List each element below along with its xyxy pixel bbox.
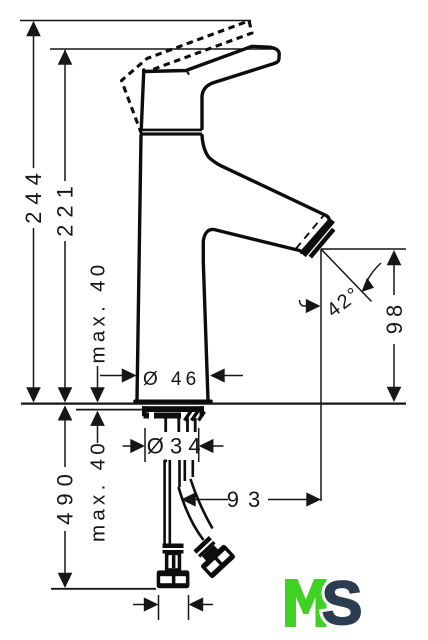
svg-text:Ø 46: Ø 46	[143, 369, 200, 390]
svg-text:93: 93	[227, 487, 269, 512]
svg-text:max. 40: max. 40	[87, 260, 110, 363]
svg-text:244: 244	[21, 166, 46, 224]
svg-text:490: 490	[53, 467, 78, 525]
svg-text:98: 98	[382, 300, 407, 334]
svg-text:221: 221	[53, 179, 78, 237]
svg-text:Ø 3 4: Ø 3 4	[147, 434, 201, 459]
svg-text:S: S	[322, 569, 363, 637]
svg-text:max. 40: max. 40	[87, 439, 110, 542]
